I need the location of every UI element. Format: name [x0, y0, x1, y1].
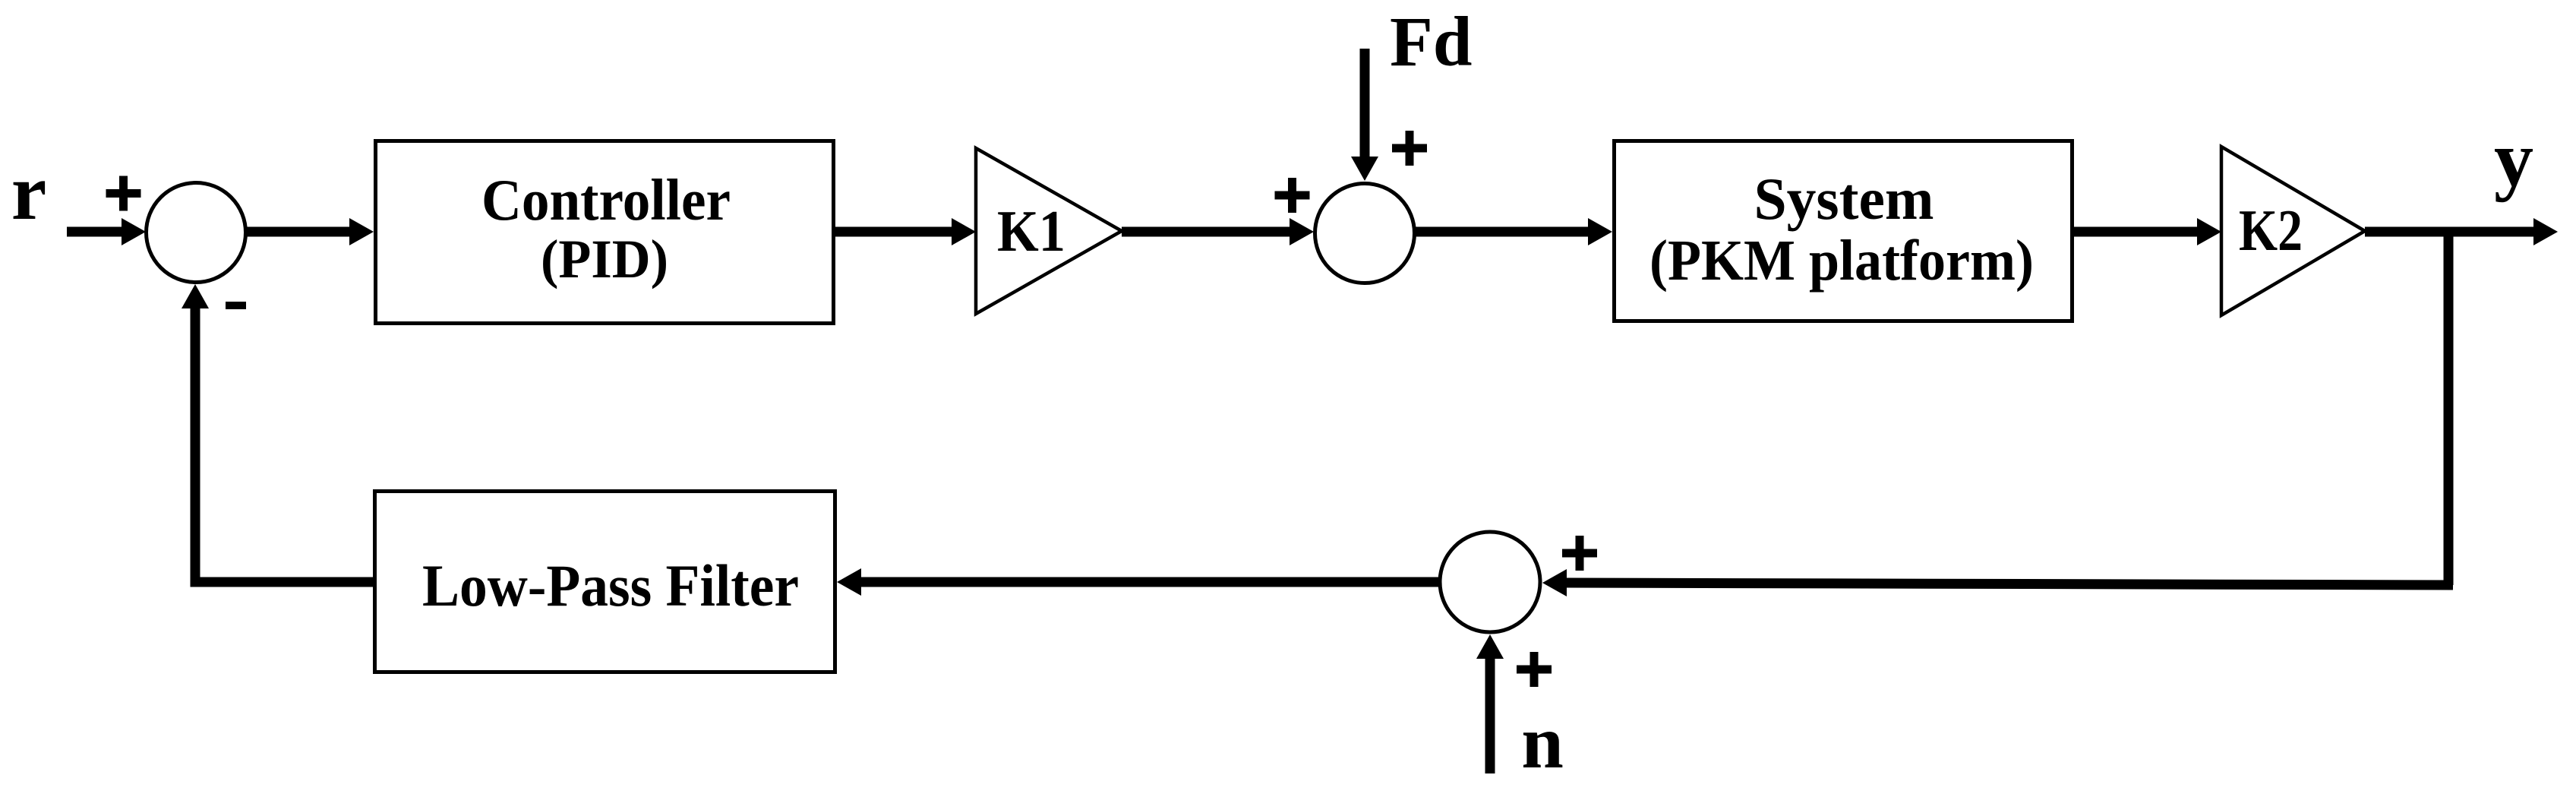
svg-text:K1: K1	[997, 198, 1065, 264]
svg-text:(PID): (PID)	[541, 229, 668, 289]
svg-text:(PKM platform): (PKM platform)	[1649, 229, 2034, 293]
svg-text:System: System	[1754, 166, 1934, 232]
svg-text:K2: K2	[2239, 198, 2303, 263]
svg-text:Fd: Fd	[1390, 3, 1473, 81]
svg-text:r: r	[11, 147, 47, 236]
svg-text:y: y	[2494, 115, 2533, 203]
svg-text:Controller: Controller	[481, 167, 731, 233]
svg-text:Low-Pass Filter: Low-Pass Filter	[422, 552, 799, 618]
svg-text:n: n	[1521, 700, 1564, 784]
